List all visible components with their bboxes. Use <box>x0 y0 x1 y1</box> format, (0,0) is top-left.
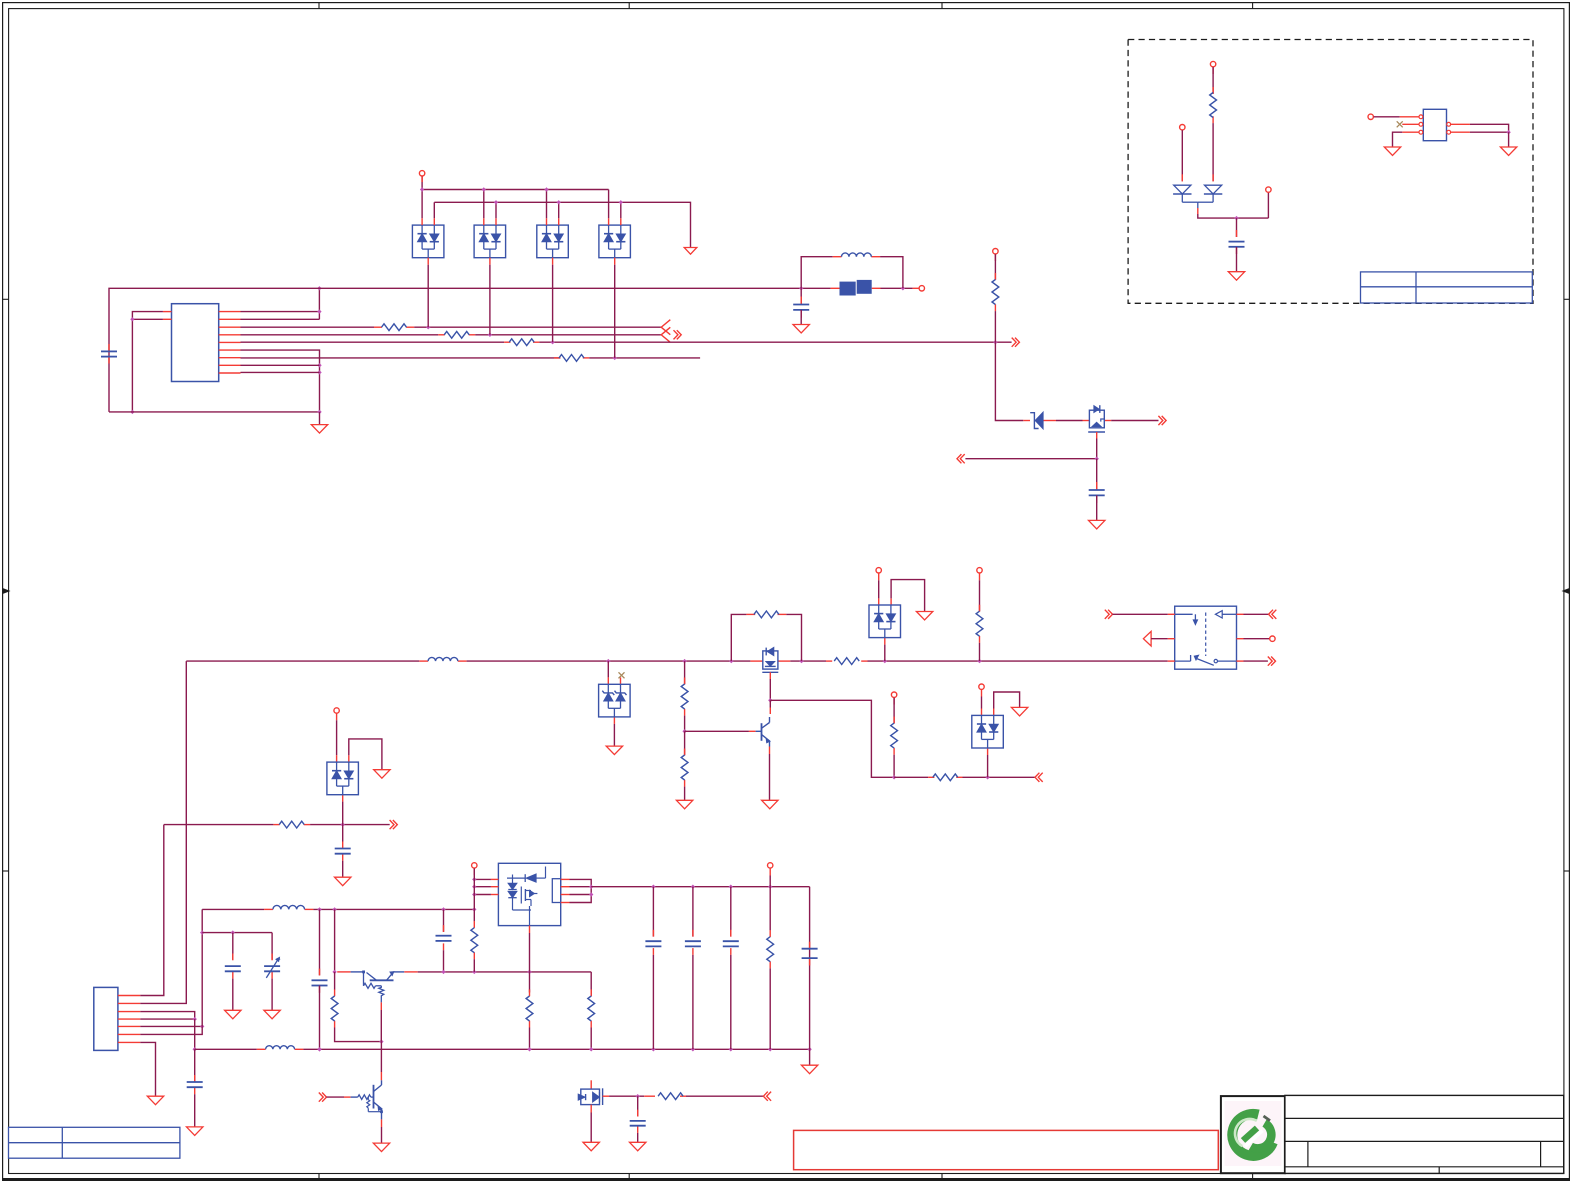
wire R6 down <box>1212 123 1214 181</box>
X1 pin5 stub <box>1451 131 1470 133</box>
wire m3 node down <box>637 1096 639 1116</box>
junction rail1049-end <box>807 1047 811 1051</box>
P4 stub <box>1212 67 1214 74</box>
capacitor C6 <box>187 1081 203 1083</box>
wire down to zener <box>995 342 1023 420</box>
zener pair D4 <box>599 684 631 717</box>
diode D11 <box>1174 185 1191 194</box>
capacitor C10 stubs <box>652 930 654 937</box>
junction fusenode-L <box>799 286 803 290</box>
wire rail B <box>434 202 690 247</box>
ground sym Q3 <box>373 1143 389 1152</box>
ground sym rail <box>801 1065 817 1074</box>
junction railB-4 <box>619 200 623 204</box>
wire right edge col <box>809 887 811 1050</box>
resistor R13 stubs <box>928 776 934 778</box>
K1 left stubs <box>1168 613 1175 615</box>
wire D1 left pin up <box>421 190 423 219</box>
resistor R11 stubs <box>684 749 686 756</box>
wire D4 bottom to row <box>614 265 616 358</box>
wire D4 right pin up <box>620 202 622 218</box>
capacitor C7 stubs <box>319 969 321 976</box>
junction mid972-icb <box>527 970 531 974</box>
wire K1 in top <box>1113 613 1168 615</box>
relay K1 box <box>1175 606 1237 669</box>
digital transistor Q3 <box>351 1096 358 1098</box>
junction p34 <box>193 1017 197 1021</box>
Dcommon stub <box>1197 208 1199 214</box>
resistor R10 <box>681 684 688 709</box>
wire c11 vert <box>692 887 694 937</box>
IC U1 <box>172 304 219 382</box>
resistor R6 stubs <box>1212 87 1214 94</box>
port P2 stub <box>913 287 919 289</box>
D7 stubs <box>981 709 983 716</box>
D11-D12 common <box>1181 194 1183 202</box>
mosfet M3 <box>581 1089 600 1105</box>
capacitor C5 stubs <box>342 842 344 849</box>
port P6 <box>1266 187 1271 192</box>
resistor R15 stubs <box>334 989 336 996</box>
netflag in arrow lowmid <box>1038 773 1042 782</box>
wire mid rail left <box>186 660 419 662</box>
ground sym D4 <box>606 746 622 755</box>
wire mid972 corner down <box>590 972 592 990</box>
wire D3 bottom to row <box>552 265 554 343</box>
junction q1node <box>768 698 772 702</box>
U2 right stubs <box>561 878 570 880</box>
wire M1 gate down <box>769 679 771 700</box>
wire R4 run right <box>589 357 700 359</box>
ground sym railB <box>684 248 697 255</box>
junction mid-loopR <box>799 659 803 663</box>
capacitor C3 stubs <box>1096 482 1098 490</box>
capacitor C13 stubs <box>809 942 811 949</box>
wire R5 to row <box>994 311 996 342</box>
table blue right <box>1361 272 1533 303</box>
resistor R19 <box>767 937 774 962</box>
port P9 <box>977 568 982 573</box>
resistor R18 stubs <box>590 989 592 996</box>
wire q1 emitter gnd <box>769 754 771 800</box>
wire pin2L vertical down <box>131 319 133 412</box>
wire D1 bottom to row <box>427 265 429 328</box>
wire cap C4 drop <box>1236 218 1238 237</box>
wire p34 down <box>194 1019 196 1049</box>
wire q2emit cross rail <box>380 1042 382 1072</box>
wire lowmid rail <box>894 776 928 778</box>
inductor L4 stubs <box>257 1048 266 1050</box>
wire P12 down <box>981 697 983 709</box>
wire J1 p3 <box>140 1012 194 1020</box>
wire U2 pinL1 <box>474 878 491 880</box>
wire top rail VCC <box>109 288 801 412</box>
wire U2 pinR2 <box>570 886 592 888</box>
resistor R20 stubs <box>644 1095 655 1097</box>
D12 stub <box>1212 174 1214 181</box>
resistor R19 stubs <box>769 930 771 937</box>
port P4 <box>1210 61 1215 66</box>
wire fuse to port <box>881 287 913 289</box>
resistor R3 <box>509 339 534 346</box>
wire R15 elbow <box>335 1028 382 1042</box>
ground sym X1 <box>1384 147 1400 156</box>
wire U1 pin3 run <box>241 326 375 328</box>
netflag out arrow K1a <box>1105 610 1109 619</box>
resistor R13 <box>933 774 958 781</box>
junction rail1049-c7 <box>317 1047 321 1051</box>
D6 stubs <box>336 755 338 762</box>
junction mid972-icv <box>472 970 476 974</box>
wire R12 down <box>893 755 895 778</box>
wire CT gnd <box>271 979 273 1011</box>
M2 stubs <box>1083 420 1090 422</box>
wire diode bus <box>1198 214 1269 218</box>
wire inductor loop right <box>880 257 903 289</box>
junction rail909-c7 <box>317 907 321 911</box>
wire q3 base in <box>327 1096 345 1098</box>
junction mid-Rchain <box>682 659 686 663</box>
wire flag to gate node <box>965 458 1096 460</box>
junction v2-p4 <box>488 333 492 337</box>
resistor R11 <box>681 755 688 780</box>
wire X1 gnd drop <box>1508 132 1510 147</box>
junction mid972-c8 <box>441 970 445 974</box>
wire R2 to flag <box>475 334 661 336</box>
junction rail932-c9 <box>231 930 235 934</box>
X1 pin4 circle <box>1447 122 1451 126</box>
TVS dual diode D1 <box>412 225 444 258</box>
Q1 emit stub <box>769 747 771 755</box>
wire U1 pin5 run <box>241 341 505 343</box>
resistor R18 <box>588 996 595 1021</box>
wire D6 bottom <box>342 802 344 825</box>
wire C4 gnd <box>1236 247 1238 272</box>
wire Rchain lower <box>684 731 686 755</box>
wire C5 gnd <box>342 861 344 878</box>
wire c12 down <box>730 955 732 1049</box>
junction p8-vert <box>317 363 321 367</box>
zener D10 stubs <box>1023 420 1030 422</box>
junction fusenode-R <box>901 286 905 290</box>
resistor R9 stubs <box>746 613 755 615</box>
wire U1 pin2L <box>132 318 163 320</box>
junction q1 base node <box>682 729 686 733</box>
X1 pin1 circle <box>1419 115 1423 119</box>
junction rail1049-c11 <box>691 1047 695 1051</box>
resistor R12 <box>891 723 898 748</box>
ground sym D7 <box>1011 707 1027 716</box>
netflag in arrow p3 <box>661 320 670 335</box>
wire C8 vert <box>443 909 445 932</box>
U2 left stubs <box>491 878 499 880</box>
digital transistor Q2 <box>351 971 364 973</box>
wire q3 emit gnd <box>381 1127 383 1143</box>
Q1 coll stub <box>769 708 771 715</box>
resistor R3 stubs <box>504 341 510 343</box>
TVS dual diode D7 <box>972 715 1004 748</box>
junction rail909-c8 <box>441 907 445 911</box>
Q3 coll stub <box>380 1072 382 1080</box>
TVS dual diode D3 <box>537 225 569 258</box>
capacitor C6 stubs <box>194 1075 196 1082</box>
X1 pin3 stub <box>1402 131 1419 133</box>
junction mid-loopL <box>729 659 733 663</box>
wire bypass loop <box>731 614 746 661</box>
netflag out arrow K1d <box>1268 657 1272 666</box>
capacitor C1 <box>101 350 117 352</box>
wire U2 pinL2 <box>474 886 491 888</box>
wire D2 right pin up <box>495 202 497 218</box>
resistor R20 <box>658 1093 683 1100</box>
transistor Q1 <box>756 730 762 732</box>
wire D7 bottom <box>987 755 989 777</box>
junction railB-3 <box>557 200 561 204</box>
resistor R7 <box>834 658 859 665</box>
notes red box <box>794 1130 1219 1169</box>
wire U2 bottom pin <box>529 933 531 972</box>
wire p5 up <box>201 909 203 1026</box>
wire rail1049 a <box>195 1048 257 1050</box>
wire P1 down <box>421 176 423 189</box>
P13 stub <box>336 714 338 721</box>
wire D4 drop <box>607 661 609 677</box>
D4z stubs <box>607 677 609 684</box>
capacitor C14 stubs <box>637 1110 639 1117</box>
J1 pin stubs <box>118 995 140 997</box>
capacitor C4 <box>1229 241 1245 243</box>
netflag in arrow m3 <box>767 1092 771 1101</box>
D1 pin stubs <box>421 218 423 225</box>
inductor L1 <box>842 253 872 257</box>
wire U1 pin1 to vertical <box>241 311 320 313</box>
junction p1-rail <box>317 286 321 290</box>
U1 pin stubs <box>219 311 241 313</box>
wire R18 down <box>590 1028 592 1050</box>
ground sym CT <box>264 1010 280 1019</box>
wire mid rail 2 <box>467 660 751 662</box>
wire P11 down <box>893 698 895 724</box>
wire bottom gnd run <box>109 411 320 413</box>
oscillator X1 <box>1423 109 1446 140</box>
junction p34-rail <box>193 1047 197 1051</box>
resistor R1 <box>382 324 407 331</box>
port P12 <box>979 684 984 689</box>
wire q1 coll <box>769 700 771 707</box>
TVS dual diode D2 <box>474 225 506 258</box>
M3 gate stub <box>603 1095 610 1097</box>
wire Rchain top <box>684 661 686 684</box>
wire R8 down <box>979 643 981 661</box>
wire rail909 a <box>202 908 264 910</box>
port P8 <box>876 568 881 573</box>
ground sym C5 <box>335 877 351 886</box>
P15 stub <box>769 868 771 875</box>
capacitor C12 stubs <box>730 930 732 937</box>
P12 stub <box>981 690 983 697</box>
wire inductor loop left <box>801 257 833 289</box>
junction m3gate <box>636 1094 640 1098</box>
ground sym U1 <box>311 425 327 434</box>
junction railB-2 <box>494 200 498 204</box>
inductor L3 stubs <box>264 908 273 910</box>
resistor R17 stubs <box>529 989 531 996</box>
port P2 <box>919 286 924 291</box>
junction rail1049-r18 <box>589 1047 593 1051</box>
wire D4 gnd <box>613 724 615 746</box>
capacitor C14 <box>630 1120 646 1122</box>
capacitor C9 <box>225 965 241 967</box>
wire R1 to flag <box>414 326 661 328</box>
D4 pin stubs <box>608 218 610 225</box>
junction p1-vert <box>317 309 321 313</box>
junction gatenode <box>1095 457 1099 461</box>
junction q2emit <box>379 1039 383 1043</box>
junction mid-D5 <box>883 659 887 663</box>
wire c10 down <box>652 955 654 1049</box>
wire C7 vert <box>319 909 321 975</box>
wire C2 to gnd <box>800 310 802 325</box>
wire P4 down <box>1212 67 1214 94</box>
wire mid972 right vert <box>590 990 592 997</box>
wire Rchain mid <box>684 716 686 732</box>
wire D3 left pin up <box>546 190 548 219</box>
wire D1 right pin up <box>433 202 435 218</box>
junction rail886-4 <box>768 885 772 889</box>
wire q1 base <box>685 730 749 732</box>
junction leftmid <box>341 822 345 826</box>
wire U2 pinR1 <box>570 879 592 902</box>
port P14 <box>472 863 477 868</box>
wire J1 p1 <box>140 825 164 996</box>
wire gate node down <box>1096 459 1098 490</box>
wire D3 right pin up <box>558 202 560 218</box>
X1 pin1 stub <box>1400 116 1419 118</box>
port P13 <box>334 708 339 713</box>
resistor R16 stubs <box>473 921 475 928</box>
D2 pin stubs <box>483 218 485 225</box>
diode D12 <box>1205 185 1222 194</box>
Q2 emit stub <box>380 1002 382 1010</box>
junction rail1049-r19 <box>768 1047 772 1051</box>
resistor R4 stubs <box>554 357 560 359</box>
junction rail909-end <box>472 907 476 911</box>
wire c14 gnd <box>637 1133 639 1142</box>
wire rail932 <box>202 932 272 934</box>
junction U2R3 <box>589 892 593 896</box>
trimmer capacitor CT <box>264 965 280 967</box>
wire M2 gate down <box>1096 439 1098 459</box>
fuse F1 <box>840 282 856 296</box>
D5 stubs <box>878 598 880 605</box>
wire D5 right elbow gnd <box>891 580 925 612</box>
trimmer CT stubs <box>271 954 273 961</box>
wire P8 down <box>878 580 880 598</box>
ground sym M3 <box>583 1142 599 1151</box>
wire X1 pin3 gnd <box>1393 132 1403 147</box>
TVS dual diode D6 <box>327 762 359 795</box>
junction p56 <box>200 1024 204 1028</box>
wire D6 right elbow <box>349 739 382 770</box>
port P5d <box>1180 125 1185 130</box>
wire U2 pinR3 <box>570 894 592 896</box>
inductor L3 <box>273 905 305 909</box>
wire mid972 rail <box>418 971 592 973</box>
X1 pin4 stub <box>1451 123 1470 125</box>
connector J1 <box>94 987 118 1050</box>
junction pin12L <box>130 317 134 321</box>
wire port P6 drop <box>1267 193 1269 219</box>
P3 stub <box>994 254 996 261</box>
zener diode D10 <box>1035 412 1043 428</box>
resistor R14 <box>279 821 304 828</box>
resistor R6 <box>1210 93 1217 118</box>
wire U2 pinL3 <box>474 894 491 896</box>
wire c12 vert <box>730 887 732 937</box>
ground sym C14 <box>630 1142 646 1151</box>
capacitor C4 stubs <box>1236 230 1238 237</box>
port P7 <box>1368 114 1373 119</box>
ground sym C4 <box>1228 272 1244 281</box>
TVS dual diode D5 <box>869 605 901 638</box>
wire J1 p6 <box>140 1026 202 1034</box>
wire D4 left pin up <box>608 190 610 219</box>
wire C9 drop <box>232 933 234 960</box>
junction rail1049-r17 <box>527 1047 531 1051</box>
junction railA-1 <box>420 187 424 191</box>
junction gnd-vert <box>317 410 321 414</box>
junction lowmid-R <box>985 775 989 779</box>
wire P9 down <box>979 580 981 611</box>
wire R3 long run <box>539 341 1011 343</box>
dashed provision box <box>1128 40 1533 304</box>
wire q2 vert <box>334 909 336 972</box>
X1 pin2 stub <box>1402 123 1419 125</box>
wire r19 vert <box>769 887 771 931</box>
wire M2 drain out <box>1111 420 1158 422</box>
resistor R16 <box>471 928 478 953</box>
K1 internals <box>1175 613 1193 615</box>
wire r20 right <box>686 1095 763 1097</box>
wire rail to fuse node <box>801 287 831 289</box>
wire X1 pin4 elbow <box>1470 124 1509 132</box>
wire P7 to X1 <box>1374 116 1400 118</box>
port P3 <box>993 249 998 254</box>
netflag in arrow mid <box>960 454 964 463</box>
wire J1 p5 <box>140 1025 202 1027</box>
Q1 base stub <box>749 730 756 732</box>
wire P3 down <box>994 254 996 280</box>
junction rvert-p5 <box>993 340 997 344</box>
junction U2R2 <box>589 885 593 889</box>
wire U2 out rail <box>591 886 809 888</box>
ground sym C9 <box>225 1010 241 1019</box>
wire P5d down <box>1181 130 1183 181</box>
capacitor C12 <box>723 940 739 942</box>
ground sym D5 <box>916 612 932 621</box>
wire U1 pin9 <box>241 371 320 373</box>
ground sym Q1 <box>762 800 778 809</box>
wire c11 down <box>692 955 694 1049</box>
wire U1 pin6 elbow <box>241 350 320 412</box>
wire K1 out bot <box>1244 660 1268 662</box>
wire U1 pin1L elbow <box>132 312 163 320</box>
power IC U2 <box>498 863 560 925</box>
wire r19 down <box>769 968 771 1049</box>
capacitor C9 stubs <box>232 954 234 961</box>
wire D2 bottom to row <box>489 265 491 335</box>
port P10 <box>1270 636 1275 641</box>
